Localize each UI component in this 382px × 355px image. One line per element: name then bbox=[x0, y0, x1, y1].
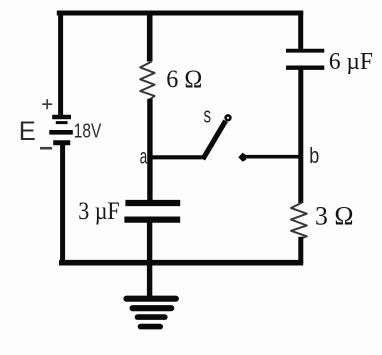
wire right vertical lower (resistor to bottom corner) bbox=[298, 237, 303, 263]
capacitor 6uF bottom plate bbox=[286, 66, 324, 70]
wire node b horizontal bbox=[243, 155, 301, 159]
switch S contact circle bbox=[226, 115, 231, 120]
wire left vertical upper (top corner to battery) bbox=[58, 11, 63, 117]
switch S lever bbox=[203, 121, 226, 159]
battery E plate short bbox=[56, 121, 68, 124]
ground bar 2 bbox=[133, 305, 172, 311]
battery E plate top bar bbox=[52, 115, 71, 120]
wire middle vertical (resistor to capacitor through node a) bbox=[147, 99, 152, 203]
wire top horizontal bbox=[57, 11, 303, 16]
capacitor 6uF top plate bbox=[286, 49, 324, 53]
svg-text:18V: 18V bbox=[74, 120, 102, 142]
svg-text:6 Ω: 6 Ω bbox=[166, 66, 202, 93]
svg-text:a: a bbox=[140, 146, 148, 169]
wire right vertical upper (top wire to capacitor C2) bbox=[298, 11, 303, 52]
svg-text:3 µF: 3 µF bbox=[78, 198, 120, 225]
svg-text:E: E bbox=[19, 116, 36, 146]
capacitor 3uF bottom plate bbox=[124, 217, 180, 223]
battery E plate bottom bar bbox=[53, 140, 70, 145]
wire node a horizontal (to switch pivot) bbox=[150, 155, 202, 159]
wire left vertical lower (battery to bottom corner) bbox=[60, 143, 65, 263]
battery E plate long bbox=[49, 130, 73, 135]
svg-text:s: s bbox=[204, 102, 211, 127]
resistor 6ohm zigzag bbox=[140, 62, 154, 99]
svg-text:3 Ω: 3 Ω bbox=[315, 200, 354, 230]
svg-text:6 µF: 6 µF bbox=[329, 49, 373, 75]
resistor 3ohm zigzag bbox=[291, 203, 307, 238]
battery plus sign bbox=[42, 99, 52, 109]
wire bottom horizontal bbox=[59, 260, 303, 266]
battery minus sign bbox=[40, 147, 52, 150]
ground bar 4 bbox=[141, 324, 161, 330]
wire right vertical middle (capacitor to resistor through node b) bbox=[298, 67, 303, 204]
wire middle vertical lower (capacitor to ground through bottom wire) bbox=[147, 220, 152, 299]
svg-text:b: b bbox=[309, 143, 319, 168]
ground bar 1 bbox=[127, 296, 176, 302]
node b contact dot bbox=[238, 153, 246, 162]
wire middle vertical upper (top wire to resistor R1) bbox=[147, 11, 153, 62]
capacitor 3uF top plate bbox=[125, 200, 180, 206]
ground bar 3 bbox=[138, 314, 165, 320]
